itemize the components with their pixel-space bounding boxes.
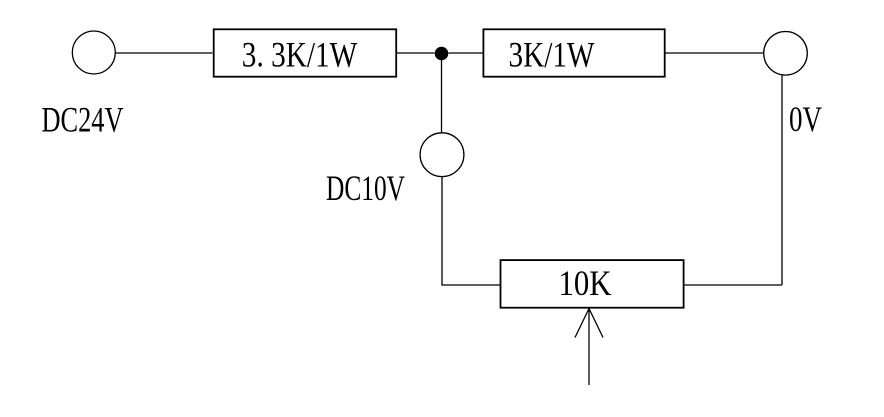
wire — [449, 52, 484, 54]
svg-text:10K: 10K — [559, 263, 612, 303]
resistor 3.3K/1W — [214, 29, 397, 76]
wire — [781, 75, 783, 285]
svg-text:DC10V: DC10V — [326, 168, 405, 208]
wire — [684, 284, 782, 286]
svg-text:0V: 0V — [789, 99, 822, 139]
terminal DC10V — [420, 133, 464, 177]
wire — [665, 52, 764, 54]
terminal DC24V — [72, 31, 115, 74]
resistor 3K/1W — [483, 29, 664, 76]
svg-text:3. 3K/1W: 3. 3K/1W — [242, 35, 358, 75]
potentiometer 10K — [501, 260, 684, 308]
wiper arrow — [575, 309, 603, 386]
svg-text:DC24V: DC24V — [42, 100, 124, 140]
wire — [115, 52, 212, 54]
node junction — [435, 47, 449, 61]
wire — [441, 54, 443, 134]
terminal 0V — [764, 32, 808, 76]
svg-text:3K/1W: 3K/1W — [509, 35, 595, 75]
wire — [397, 52, 435, 54]
wire — [442, 177, 500, 285]
